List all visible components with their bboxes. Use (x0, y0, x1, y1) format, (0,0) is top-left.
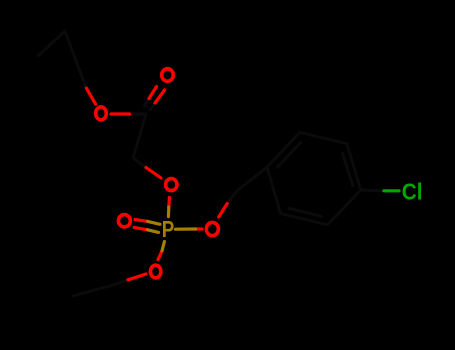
svg-text:P: P (162, 217, 175, 242)
svg-text:Cl: Cl (402, 179, 423, 205)
